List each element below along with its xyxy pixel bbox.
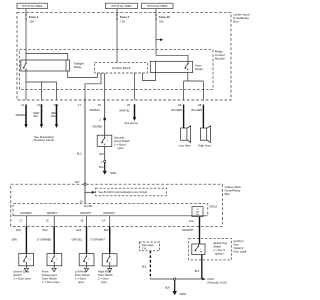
svg-text:YEL/RED: YEL/RED <box>92 125 103 128</box>
svg-text:GRN/BLU: GRN/BLU <box>47 212 58 215</box>
wire control block to horns pin 29 <box>134 73 136 100</box>
relay control module (dashed enclosure) <box>20 50 214 90</box>
wire hood switch to ground <box>99 146 106 170</box>
see B-CAN communication line circuit box <box>96 188 167 196</box>
svg-text:BLU/RED: BLU/RED <box>172 109 183 112</box>
svg-text:Switch: Switch <box>13 273 22 277</box>
taillight relay switch <box>23 63 27 70</box>
svg-text:7-8.: 7-8. <box>142 247 147 251</box>
svg-text:F13: F13 <box>189 219 194 223</box>
svg-text:Fuse 7: Fuse 7 <box>120 15 130 19</box>
wire control block to horn relay coil <box>143 73 156 81</box>
node D17 connector circle <box>75 180 86 185</box>
svg-text:Door Switch: Door Switch <box>75 273 90 277</box>
svg-text:LT GRN/RED: LT GRN/RED <box>37 239 52 242</box>
svg-text:BLK: BLK <box>142 266 147 269</box>
bold see horns arrow <box>124 104 138 125</box>
label Front Passenger's Door Switch <box>42 270 60 285</box>
svg-text:1: 1 <box>111 259 112 261</box>
label Horn Relay <box>195 64 203 71</box>
svg-text:open: open <box>78 281 85 284</box>
svg-text:B12: B12 <box>43 228 48 232</box>
svg-text:Fuse 4: Fuse 4 <box>29 15 39 19</box>
svg-text:18: 18 <box>80 219 83 223</box>
bold illumination arrow 3 <box>55 105 58 129</box>
ground G301 <box>103 171 117 175</box>
high horn symbol <box>198 126 211 148</box>
svg-text:Driver's Door: Driver's Door <box>13 270 29 274</box>
svg-text:Box: Box <box>233 19 239 23</box>
svg-text:Door Switch: Door Switch <box>42 277 57 281</box>
control block (dashed box) <box>95 62 148 73</box>
wire control block to pin 17 jog <box>85 73 101 100</box>
wire taillight relay output <box>25 69 27 82</box>
svg-text:17: 17 <box>19 219 22 223</box>
see page reference box <box>139 242 159 251</box>
MICU box (dashed) <box>13 203 208 216</box>
fuse F7 with feed wire <box>116 9 129 24</box>
svg-text:Module: Module <box>215 57 225 61</box>
svg-text:Switch: Switch <box>213 245 221 249</box>
svg-text:1: 1 <box>56 258 57 260</box>
svg-text:G301: G301 <box>110 171 117 175</box>
label Security Hood Switch 1 = Hood open <box>114 136 130 150</box>
wire junction to ground <box>165 280 175 291</box>
svg-text:1: 1 <box>88 258 89 260</box>
wire illumination bus <box>26 82 57 100</box>
bold illumination arrow 1 <box>24 105 27 129</box>
svg-text:Box: Box <box>225 192 231 196</box>
svg-text:Right Rear: Right Rear <box>98 270 111 274</box>
svg-text:BLK: BLK <box>34 115 39 118</box>
junction connector circle <box>174 278 176 280</box>
under-dash fuse/relay box (dashed enclosure) <box>11 184 223 226</box>
svg-text:1 = Door: 1 = Door <box>75 277 86 281</box>
pin stub door 4 with pin 14 <box>102 216 110 227</box>
wire label RED/BLK (illum 3) <box>51 112 57 118</box>
svg-text:GRN/YEL: GRN/YEL <box>72 239 83 242</box>
svg-text:7.5A: 7.5A <box>120 20 125 23</box>
svg-text:open: open <box>117 146 124 150</box>
svg-text:GRN/ORN: GRN/ORN <box>103 212 115 215</box>
svg-text:BLK: BLK <box>165 287 170 290</box>
taillight relay coil feed jog <box>26 54 68 61</box>
fuse F4 with feed wire <box>25 9 38 24</box>
svg-text:Front: Front <box>42 270 49 274</box>
svg-text:See Horns: See Horns <box>124 121 138 125</box>
bold wire to high horn <box>202 105 204 129</box>
label Under-hood Fuse/Relay Box <box>233 12 250 23</box>
bold wire to low horn <box>183 105 185 129</box>
wire hood switch column upper <box>104 100 106 135</box>
power label box HOT AT ALL TIMES 2 <box>106 3 138 8</box>
svg-text:LT GRN/WHT: LT GRN/WHT <box>90 239 105 242</box>
svg-text:RED/WHT: RED/WHT <box>182 229 194 232</box>
svg-text:29: 29 <box>127 103 130 107</box>
power label box HOT AT ALL TIMES 1 <box>17 3 48 8</box>
svg-text:B-CAN: B-CAN <box>84 204 92 208</box>
svg-text:15: 15 <box>46 219 49 223</box>
label Left Rear Door Switch <box>75 270 90 285</box>
svg-text:(Terminals 11-16): (Terminals 11-16) <box>207 282 226 285</box>
bold door wire 4 <box>109 226 111 253</box>
svg-text:1: 1 <box>200 249 201 251</box>
svg-text:Control Block: Control Block <box>112 66 131 70</box>
svg-text:open: open <box>101 281 108 284</box>
bold wire MICU to ignition key switch <box>199 217 201 244</box>
svg-text:BLK: BLK <box>99 166 104 169</box>
svg-text:H8: H8 <box>198 103 202 107</box>
label Under-dash Fuse/Relay Box <box>225 185 241 196</box>
wire horn relay output bus <box>184 73 204 101</box>
svg-text:High Horn: High Horn <box>198 144 211 148</box>
svg-text:HOT AT ALL TIMES: HOT AT ALL TIMES <box>22 5 43 8</box>
pin stub door 2 with pin 15 <box>46 216 55 227</box>
fuse F13 with feed wire <box>155 9 170 24</box>
svg-text:1: 1 <box>101 161 103 164</box>
svg-text:BLU/GRN: BLU/GRN <box>192 109 203 112</box>
svg-text:Relay: Relay <box>195 67 203 71</box>
wire fuse13 vertical <box>155 20 157 56</box>
branch arrow tap on fuse13 wire <box>156 38 163 41</box>
svg-text:HOT AT ALL TIMES: HOT AT ALL TIMES <box>147 5 168 8</box>
bold door wire 2 <box>53 226 55 253</box>
svg-text:10A: 10A <box>30 20 35 23</box>
svg-text:E14: E14 <box>77 228 82 232</box>
taillight relay box <box>21 60 70 71</box>
label See Illumination (Positive) Circuit <box>33 135 54 142</box>
wire bottom ground bus <box>150 278 201 280</box>
branch arrow to B-CAN circuit box <box>85 191 95 194</box>
svg-text:MICU: MICU <box>209 205 217 209</box>
ground G501 <box>172 291 186 296</box>
power label box HOT AT ALL TIMES 3 <box>142 3 174 8</box>
svg-text:Left Rear: Left Rear <box>75 270 86 274</box>
svg-text:D17: D17 <box>75 180 80 184</box>
security hood switch box <box>97 135 112 146</box>
svg-text:1 = Key in: 1 = Key in <box>213 248 226 252</box>
wire B-CAN drop from D17 <box>84 185 86 203</box>
horn relay switch <box>184 63 189 70</box>
svg-text:GRN/YEL: GRN/YEL <box>119 110 130 113</box>
svg-text:1: 1 <box>107 140 108 142</box>
left rear door switch <box>79 254 94 272</box>
label Relay Control Module <box>215 50 225 61</box>
wire control block to hood switch pin <box>104 73 106 100</box>
bold door wire 3 <box>86 226 88 253</box>
wire fuse7 to control block <box>116 20 118 63</box>
right rear door switch <box>102 254 117 272</box>
wire label RED/BLK (illum 2) <box>34 112 40 118</box>
label Ignition Key Switch 1 = Key in ignition <box>213 241 228 255</box>
svg-text:ignition: ignition <box>215 251 224 255</box>
svg-text:Passenger's: Passenger's <box>42 273 58 277</box>
low horn symbol <box>179 126 192 148</box>
pin stub door 3 with pin 18 <box>80 216 86 227</box>
connector 2 on hood switch wire <box>99 118 106 122</box>
svg-text:Relay: Relay <box>74 65 82 69</box>
svg-text:Door Switch: Door Switch <box>98 273 113 277</box>
svg-text:20A: 20A <box>159 20 164 23</box>
label Right Rear Door Switch <box>98 270 113 285</box>
ignition key switch assembly (dashed box) <box>189 239 232 260</box>
wire fuse13 to horn relay contact <box>156 55 188 63</box>
svg-text:14: 14 <box>102 219 105 223</box>
svg-text:HOT AT ALL TIMES: HOT AT ALL TIMES <box>111 5 132 8</box>
under-hood fuse/relay box (dashed enclosure) <box>17 12 231 100</box>
svg-text:GRN/RED: GRN/RED <box>20 212 31 215</box>
svg-text:E15: E15 <box>16 228 21 232</box>
svg-text:See page: See page <box>142 243 154 247</box>
svg-text:GRN/BLK: GRN/BLK <box>89 109 100 112</box>
pin stub door 1 with pin 17 <box>19 216 26 227</box>
svg-text:Key Light: Key Light <box>234 250 247 254</box>
bold door wire 1 <box>25 226 27 253</box>
svg-text:17: 17 <box>78 103 81 107</box>
svg-text:18: 18 <box>98 103 101 107</box>
svg-text:(Positive) Circuit.: (Positive) Circuit. <box>33 138 54 142</box>
svg-text:BLK: BLK <box>195 270 200 273</box>
svg-text:11: 11 <box>21 103 24 107</box>
ignition key switch contact box <box>192 244 205 255</box>
dashed continuation wire from see page box <box>149 251 151 279</box>
MICU internal key switch sense box <box>192 207 203 217</box>
driver's door switch <box>19 254 34 272</box>
svg-text:Ignition Key: Ignition Key <box>213 241 228 245</box>
svg-text:BLK: BLK <box>100 153 105 156</box>
wire taillight coil to control block <box>68 71 98 78</box>
svg-text:1 = Door: 1 = Door <box>98 277 109 281</box>
svg-text:GRN/BLK: GRN/BLK <box>16 114 27 117</box>
svg-text:SW: SW <box>196 214 199 216</box>
connector C610 arrow and label <box>202 277 227 285</box>
svg-text:2: 2 <box>99 118 101 122</box>
svg-text:B13: B13 <box>104 228 109 232</box>
bold wire key switch to junction <box>195 255 202 279</box>
svg-text:Fuse 13: Fuse 13 <box>159 15 170 19</box>
svg-text:GRN: GRN <box>12 239 18 242</box>
svg-text:H3: H3 <box>178 103 182 107</box>
wire fuse4 to taillight relay contact <box>25 20 27 64</box>
label Driver's Door Switch <box>13 270 31 281</box>
svg-text:1 = Door open: 1 = Door open <box>42 280 60 284</box>
bold illumination arrow 2 <box>40 105 43 129</box>
svg-text:1 = Door open: 1 = Door open <box>13 277 31 281</box>
horn relay box <box>150 61 192 72</box>
svg-text:BLK: BLK <box>51 115 56 118</box>
svg-text:G501: G501 <box>180 292 187 296</box>
svg-text:GRN/WHT: GRN/WHT <box>80 212 92 215</box>
svg-text:See B-CAN Communication Line C: See B-CAN Communication Line Circuit, <box>98 190 148 194</box>
svg-text:1: 1 <box>28 258 29 260</box>
svg-text:BLU: BLU <box>77 153 82 156</box>
svg-text:Low Horn: Low Horn <box>179 144 192 148</box>
wire pin17 down to D17 <box>84 100 86 183</box>
label Taillight Relay <box>74 61 84 68</box>
svg-text:C610: C610 <box>207 277 214 281</box>
label Ignition Key Switch/Key Light <box>234 239 247 254</box>
front passenger's door switch <box>47 254 62 272</box>
